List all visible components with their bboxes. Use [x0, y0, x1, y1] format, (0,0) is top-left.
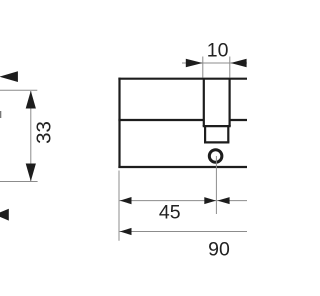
svg-text:45: 45 — [159, 201, 181, 223]
svg-text:10: 10 — [207, 40, 229, 62]
svg-text:90: 90 — [208, 238, 230, 260]
svg-text:33: 33 — [32, 121, 55, 144]
